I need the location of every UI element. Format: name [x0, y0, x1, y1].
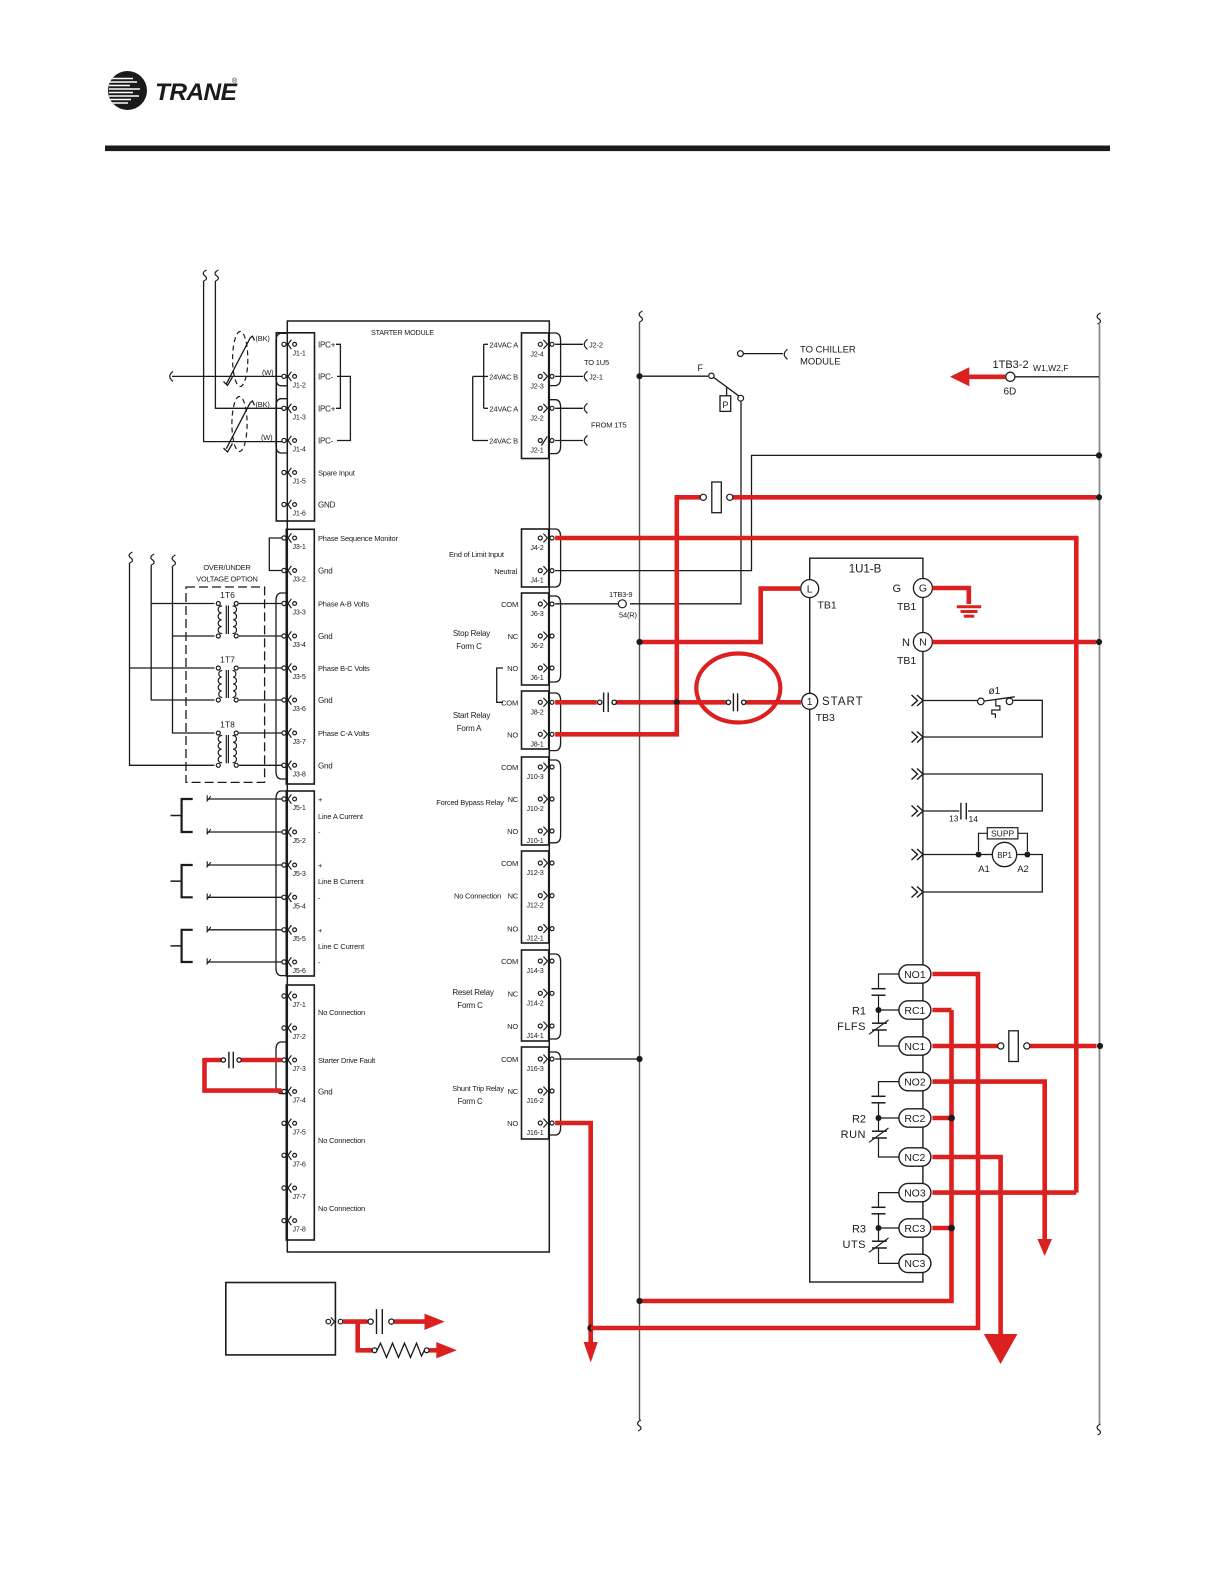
- svg-text:W1,W2,F: W1,W2,F: [1033, 363, 1068, 373]
- contact terminal RC3: [899, 1219, 931, 1237]
- contact 13 14: [949, 803, 978, 824]
- svg-text:Spare Input: Spare Input: [318, 469, 356, 478]
- svg-text:NC2: NC2: [904, 1152, 925, 1164]
- capacitor in emphasis circle: [726, 693, 746, 711]
- svg-text:J14-3: J14-3: [527, 966, 544, 975]
- wire CT C + to J5-5: [207, 926, 282, 932]
- svg-text:-: -: [318, 893, 321, 902]
- pin J3-4: [282, 631, 306, 649]
- svg-text:NO1: NO1: [904, 969, 926, 981]
- contact terminal NC2: [899, 1148, 931, 1166]
- svg-text:J3-6: J3-6: [293, 704, 306, 713]
- svg-text:J1-2: J1-2: [293, 380, 306, 389]
- svg-text:J1-6: J1-6: [293, 509, 306, 518]
- connector J16: [522, 1047, 549, 1139]
- svg-text:13: 13: [949, 814, 959, 824]
- wire NC2 red down arrow: [932, 1157, 1000, 1335]
- svg-text:+: +: [318, 795, 323, 804]
- wire J2-1 from 1T5: [555, 436, 587, 446]
- wire N to bus (red): [933, 640, 1096, 645]
- wire NO1 red: [591, 974, 978, 1328]
- junction: [948, 1115, 955, 1122]
- svg-text:J12-3: J12-3: [527, 868, 544, 877]
- terminal G TB1: [892, 579, 932, 614]
- wire J16-3 to bus: [555, 1058, 636, 1060]
- plug chevron 1: [912, 695, 918, 706]
- svg-text:J2-3: J2-3: [530, 381, 543, 390]
- wire J2-2 from 1T5: [555, 403, 587, 413]
- plug chevron 3: [912, 769, 918, 780]
- bracket J16: [549, 1052, 561, 1135]
- svg-text:J1-5: J1-5: [293, 477, 306, 486]
- svg-text:J2-1: J2-1: [589, 372, 603, 381]
- svg-text:J2-1: J2-1: [530, 446, 543, 455]
- pin J3-2: [282, 566, 306, 584]
- arrow down (NO2): [1037, 1239, 1052, 1256]
- svg-text:J2-2: J2-2: [589, 340, 603, 349]
- svg-text:J3-2: J3-2: [293, 575, 306, 584]
- starter module outline: [287, 321, 549, 1252]
- junction: [636, 373, 642, 379]
- pin J3-5: [282, 663, 306, 681]
- capacitor C (snubber): [368, 1309, 394, 1334]
- svg-text:NC: NC: [508, 1087, 519, 1096]
- wire twisted-pair feed 1 (to J1-4): [203, 270, 282, 442]
- svg-text:14: 14: [969, 814, 979, 824]
- pin J2-4: [530, 340, 554, 358]
- svg-text:Shunt Trip Relay: Shunt Trip Relay: [452, 1084, 504, 1093]
- svg-text:R2: R2: [852, 1114, 866, 1126]
- svg-text:J14-2: J14-2: [527, 998, 544, 1007]
- svg-text:TB3: TB3: [816, 712, 835, 724]
- svg-text:J12-1: J12-1: [527, 934, 544, 943]
- junction: [636, 639, 642, 645]
- wire interlock phi-1 loop: [924, 700, 1043, 737]
- svg-text:No Connection: No Connection: [318, 1136, 365, 1145]
- svg-text:®: ®: [232, 77, 238, 85]
- pin J14-3: [527, 957, 554, 975]
- svg-text:-: -: [318, 828, 321, 837]
- contact terminal NO1: [899, 965, 931, 983]
- svg-text:24VAC B: 24VAC B: [489, 372, 518, 381]
- pin J16-2: [527, 1087, 554, 1105]
- svg-text:J3-4: J3-4: [293, 640, 306, 649]
- svg-text:Form A: Form A: [457, 724, 482, 733]
- svg-text:J1-1: J1-1: [293, 348, 306, 357]
- pin J12-3: [527, 859, 554, 877]
- wire CT A + to J5-1: [207, 795, 282, 801]
- svg-text:Line C Current: Line C Current: [318, 942, 365, 951]
- connector J8: [522, 691, 549, 749]
- svg-text:Start Relay: Start Relay: [453, 711, 491, 720]
- svg-text:NO: NO: [507, 730, 518, 739]
- svg-text:J16-1: J16-1: [527, 1128, 544, 1137]
- contact terminal NO3: [899, 1183, 931, 1201]
- wire 1T8 to J3-8: [239, 764, 282, 766]
- svg-text:Phase Sequence Monitor: Phase Sequence Monitor: [318, 534, 399, 543]
- pin J1-6: [282, 500, 306, 518]
- svg-text:J7-3: J7-3: [293, 1064, 306, 1073]
- terminal to chiller module: [738, 349, 788, 359]
- svg-text:No Connection: No Connection: [454, 892, 501, 901]
- wire CT B - to J5-4: [207, 894, 282, 900]
- svg-text:NO2: NO2: [904, 1076, 926, 1088]
- connector J12: [522, 851, 549, 943]
- capacitor on J7-3 line: [221, 1052, 241, 1069]
- svg-text:Forced Bypass Relay: Forced Bypass Relay: [436, 798, 504, 807]
- svg-text:RC1: RC1: [904, 1005, 925, 1017]
- svg-text:J1-3: J1-3: [293, 412, 306, 421]
- svg-text:-: -: [318, 958, 321, 967]
- pin J1-2: [282, 372, 306, 390]
- pin J7-2: [282, 1023, 306, 1041]
- twisted pair shield 1: [224, 332, 255, 387]
- svg-text:NO: NO: [507, 1022, 518, 1031]
- svg-text:J4-2: J4-2: [530, 543, 543, 552]
- svg-text:J4-1: J4-1: [530, 576, 543, 585]
- pin J7-3: [282, 1055, 306, 1073]
- svg-text:L: L: [807, 583, 813, 595]
- svg-text:COM: COM: [501, 1055, 518, 1064]
- svg-text:N: N: [919, 637, 927, 649]
- svg-text:FROM 1T5: FROM 1T5: [591, 421, 627, 430]
- pin J12-2: [527, 891, 554, 909]
- svg-text:J7-2: J7-2: [293, 1032, 306, 1041]
- svg-text:COM: COM: [501, 763, 518, 772]
- wire red to RC snubber: [343, 1322, 437, 1351]
- svg-text:J7-6: J7-6: [293, 1159, 306, 1168]
- pin J14-1: [527, 1022, 554, 1040]
- twisted pair shield 2: [224, 397, 255, 453]
- svg-text:TB1: TB1: [818, 600, 837, 612]
- wire red bus to L: [640, 589, 801, 642]
- svg-text:NC: NC: [508, 632, 519, 641]
- pin J10-3: [527, 763, 554, 781]
- junction: [587, 1325, 594, 1332]
- jumper label NO J6-1 to COM J8-2: [497, 668, 503, 702]
- pin J5-2: [282, 827, 306, 845]
- pin J12-1: [527, 924, 554, 942]
- svg-text:J5-2: J5-2: [293, 836, 306, 845]
- svg-text:TO 1U5: TO 1U5: [584, 358, 609, 367]
- wire 1T7 to J3-6: [239, 699, 282, 701]
- wire J8-1 red: [555, 705, 677, 735]
- svg-text:STARTER MODULE: STARTER MODULE: [371, 328, 434, 337]
- svg-text:NO: NO: [507, 827, 518, 836]
- svg-text:GND: GND: [318, 501, 336, 510]
- svg-text:J14-1: J14-1: [527, 1031, 544, 1040]
- svg-text:J3-3: J3-3: [293, 608, 306, 617]
- bracket J4: [549, 529, 561, 587]
- wire contact 13-14 loop: [924, 774, 1043, 811]
- svg-text:Reset Relay: Reset Relay: [452, 988, 494, 997]
- pin J1-1: [282, 340, 306, 358]
- svg-text:NO: NO: [507, 664, 518, 673]
- junction: [674, 699, 680, 705]
- svg-text:J7-1: J7-1: [293, 1000, 306, 1009]
- svg-text:J2-2: J2-2: [530, 413, 543, 422]
- vertical bus line (left): [638, 311, 643, 1431]
- svg-text:SUPP: SUPP: [991, 829, 1014, 839]
- svg-text:G: G: [892, 583, 901, 595]
- svg-text:COM: COM: [501, 698, 518, 707]
- svg-text:ø1: ø1: [989, 686, 1001, 697]
- fuse (line side): [700, 482, 733, 513]
- wire 1T7 to J3-5: [239, 667, 282, 669]
- wire J6-3 to node 1TB3-9: [555, 603, 618, 605]
- svg-text:(W): (W): [262, 368, 274, 377]
- svg-text:Gnd: Gnd: [318, 696, 333, 705]
- svg-text:NC1: NC1: [904, 1041, 925, 1053]
- svg-text:Form C: Form C: [458, 1097, 483, 1106]
- red emphasis circle: [696, 654, 780, 723]
- svg-text:Neutral: Neutral: [494, 567, 517, 576]
- svg-text:G: G: [919, 583, 927, 595]
- svg-text:J8-2: J8-2: [530, 707, 543, 716]
- transformer 1T6: [216, 590, 238, 638]
- wire J2-3 to J2-1: [555, 371, 587, 381]
- svg-text:J10-1: J10-1: [527, 836, 544, 845]
- svg-text:1T6: 1T6: [220, 590, 235, 600]
- svg-text:Phase C-A Volts: Phase C-A Volts: [318, 729, 370, 738]
- wire red from fuse to bus: [677, 497, 1096, 702]
- svg-text:24VAC B: 24VAC B: [489, 437, 518, 446]
- connector J14: [522, 950, 549, 1041]
- connector J7: [286, 985, 314, 1240]
- fuse (NC1): [998, 1031, 1030, 1062]
- svg-text:1T8: 1T8: [220, 720, 235, 730]
- svg-text:J16-2: J16-2: [527, 1096, 544, 1105]
- bracket J8: [549, 693, 561, 751]
- suppressor SUPP: [979, 828, 1028, 851]
- svg-text:COM: COM: [501, 600, 518, 609]
- current transformer line B: [171, 865, 193, 897]
- wire 1T6 to J3-4: [239, 635, 282, 637]
- svg-text:R1: R1: [852, 1006, 866, 1018]
- svg-text:TB1: TB1: [897, 601, 916, 613]
- transformer 1T7: [216, 655, 238, 703]
- transformer 1T8: [216, 720, 238, 768]
- wire starter drive fault red loop: [205, 1058, 282, 1091]
- terminal N TB1: [897, 633, 932, 668]
- plug chevron 4: [912, 806, 918, 817]
- contact terminal NC1: [899, 1037, 931, 1055]
- junction: [1096, 452, 1102, 458]
- junction: [636, 1298, 642, 1304]
- svg-text:Line A Current: Line A Current: [318, 812, 364, 821]
- contact terminal RC1: [899, 1001, 931, 1019]
- wire phase B feed: [151, 554, 215, 700]
- junction A2: [1024, 852, 1030, 858]
- terminal 1 TB3 (START): [802, 693, 864, 724]
- contact terminal NO2: [899, 1072, 931, 1090]
- horizontal rule: [105, 146, 1110, 152]
- bracket J5-1..J5-6: [276, 791, 287, 976]
- wire NC1 red to fuse: [932, 1044, 1096, 1049]
- svg-text:J16-3: J16-3: [527, 1064, 544, 1073]
- pin J10-2: [527, 795, 554, 813]
- wire J4-2 red (end of limit): [555, 538, 1076, 1193]
- jumper IPC- J1-2 to J1-4: [337, 376, 350, 440]
- terminal L TB1: [801, 580, 837, 612]
- pin J5-3: [282, 860, 306, 878]
- wire to J1-2 (W): [170, 371, 282, 381]
- wire J4-1 neutral to bus: [555, 455, 1096, 570]
- bracket J2-2..J2-1: [549, 400, 561, 454]
- svg-text:Stop Relay: Stop Relay: [453, 629, 490, 638]
- svg-text:BP1: BP1: [997, 851, 1012, 860]
- module 1U1-B outline: [810, 558, 923, 1282]
- svg-text:Form C: Form C: [456, 642, 482, 651]
- svg-text:J3-1: J3-1: [293, 542, 306, 551]
- pin J7-1: [282, 991, 306, 1009]
- pin J1-3: [282, 404, 306, 422]
- svg-text:J7-5: J7-5: [293, 1127, 306, 1136]
- svg-text:TRANE: TRANE: [155, 79, 238, 106]
- junction A1: [976, 852, 982, 858]
- wire CT A - to J5-2: [207, 828, 282, 834]
- arrow out (resistor): [436, 1342, 457, 1358]
- relay R2 RUN chain: [869, 1082, 899, 1157]
- wire CT B + to J5-3: [207, 861, 282, 867]
- current transformer line A: [171, 799, 193, 832]
- svg-text:J6-2: J6-2: [530, 641, 543, 650]
- svg-text:J6-1: J6-1: [530, 673, 543, 682]
- svg-text:Gnd: Gnd: [318, 632, 333, 641]
- svg-text:J8-1: J8-1: [530, 739, 543, 748]
- svg-text:J5-4: J5-4: [293, 901, 306, 910]
- connector J10: [522, 757, 549, 845]
- svg-text:Gnd: Gnd: [318, 761, 333, 770]
- svg-text:TB1: TB1: [897, 655, 916, 667]
- jumper J3-1 to J3-2: [269, 538, 281, 571]
- pin J3-6: [282, 695, 306, 713]
- svg-text:J3-8: J3-8: [293, 769, 306, 778]
- bracket J3-3..J3-8: [276, 593, 287, 779]
- svg-text:J7-8: J7-8: [293, 1225, 306, 1234]
- svg-text:J5-5: J5-5: [293, 934, 306, 943]
- arrow left (1TB3-2): [950, 367, 969, 386]
- arrow down large (NC2): [984, 1334, 1018, 1364]
- connector J6: [522, 593, 549, 685]
- svg-text:+: +: [318, 861, 323, 870]
- node 1TB3-2: [993, 359, 1069, 398]
- wire J8-2 red with capacitors: [555, 700, 801, 705]
- junction: [636, 1056, 642, 1062]
- pin J5-4: [282, 893, 306, 911]
- wire 1T6 to J3-3: [239, 603, 282, 605]
- svg-text:J10-2: J10-2: [527, 804, 544, 813]
- jumper 24VAC A pair: [484, 344, 488, 408]
- svg-text:1T7: 1T7: [220, 655, 235, 665]
- svg-text:J1-4: J1-4: [293, 445, 306, 454]
- terminal box (bottom left): [226, 1283, 336, 1355]
- svg-text:24VAC A: 24VAC A: [490, 340, 519, 349]
- pin J2-2: [530, 404, 554, 422]
- svg-text:IPC-: IPC-: [318, 372, 334, 381]
- svg-text:J3-7: J3-7: [293, 737, 306, 746]
- bracket J6: [549, 596, 561, 682]
- junction: [876, 1225, 882, 1231]
- pin J7-5: [282, 1119, 306, 1137]
- connector J5: [286, 791, 314, 976]
- pin J7-4: [282, 1087, 306, 1105]
- pin J2-1: [530, 437, 554, 455]
- pin J16-1: [527, 1119, 554, 1137]
- svg-text:1TB3-9: 1TB3-9: [609, 590, 632, 599]
- vertical bus line (right): [1097, 313, 1100, 1435]
- svg-text:N: N: [902, 637, 910, 649]
- svg-text:No Connection: No Connection: [318, 1008, 365, 1017]
- pin J8-2: [530, 698, 554, 716]
- svg-text:(BK): (BK): [256, 400, 271, 409]
- svg-text:NC: NC: [508, 892, 519, 901]
- svg-text:J5-6: J5-6: [293, 966, 306, 975]
- pin J6-1: [530, 664, 554, 682]
- svg-text:J10-3: J10-3: [527, 772, 544, 781]
- svg-text:No Connection: No Connection: [318, 1204, 365, 1213]
- pin J4-1: [530, 566, 554, 584]
- svg-text:RC2: RC2: [904, 1113, 925, 1125]
- svg-text:RC3: RC3: [904, 1223, 925, 1235]
- pin J14-2: [527, 989, 554, 1007]
- pin J1-4: [282, 436, 306, 454]
- junction: [1097, 1043, 1103, 1049]
- svg-text:NC3: NC3: [904, 1258, 925, 1270]
- junction: [1096, 494, 1102, 500]
- wire 1T8 to J3-7: [239, 732, 282, 734]
- bracket J10: [549, 760, 561, 843]
- svg-text:OVER/UNDER: OVER/UNDER: [203, 563, 250, 572]
- pin J7-8: [282, 1216, 306, 1234]
- svg-text:FLFS: FLFS: [837, 1021, 866, 1033]
- wire NO2 red down arrow: [932, 1082, 1044, 1240]
- contact terminal NC3: [899, 1254, 931, 1272]
- svg-text:End of Limit Input: End of Limit Input: [449, 550, 505, 559]
- pin J1-5: [282, 468, 306, 486]
- relay R1 FLFS chain: [869, 974, 899, 1046]
- svg-text:COM: COM: [501, 957, 518, 966]
- svg-text:START: START: [822, 696, 864, 708]
- pin J6-2: [530, 632, 554, 650]
- wire BP1 loop: [924, 855, 1043, 893]
- svg-text:Phase B-C Volts: Phase B-C Volts: [318, 664, 370, 673]
- svg-text:J7-7: J7-7: [293, 1192, 306, 1201]
- svg-text:Form C: Form C: [457, 1001, 483, 1010]
- arrow down (J16-1): [584, 1342, 598, 1363]
- wire J16-1 red down: [555, 1123, 591, 1342]
- junction: [1096, 639, 1102, 645]
- connector J4: [522, 529, 549, 587]
- coil BP1: [978, 842, 1029, 875]
- pin J16-3: [527, 1055, 554, 1073]
- pin on terminal box: [326, 1317, 343, 1325]
- pin J4-2: [530, 534, 554, 552]
- over/under voltage option dashed box: [186, 587, 265, 782]
- arrow out (capacitor): [425, 1314, 445, 1330]
- pin J3-3: [282, 599, 306, 617]
- pin J3-7: [282, 728, 306, 746]
- svg-text:J2-4: J2-4: [530, 349, 543, 358]
- relay R3 UTS chain: [869, 1193, 899, 1264]
- bracket J14: [549, 954, 561, 1039]
- pin J8-1: [530, 730, 554, 748]
- svg-text:TO CHILLER: TO CHILLER: [800, 345, 856, 356]
- Trane logo: [108, 71, 238, 110]
- svg-text:J5-3: J5-3: [293, 869, 306, 878]
- svg-text:6D: 6D: [1004, 387, 1017, 398]
- connector J1: [276, 333, 314, 521]
